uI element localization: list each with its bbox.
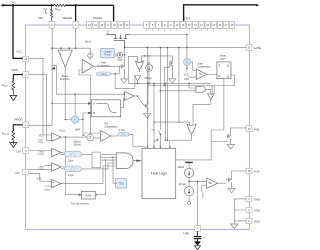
wire out pin stubs (146, 28, 232, 31)
wire VIN left drop to VCC (13, 5, 23, 58)
block input filter (92, 152, 101, 168)
wire TMR cap (197, 231, 199, 236)
wire VIN top rail (3, 4, 55, 6)
circle gate sense (183, 59, 190, 66)
wire inverter input stubs (212, 86, 214, 95)
svg-text:1.235V: 1.235V (203, 191, 205, 198)
comparator OV2 (52, 179, 62, 187)
svg-text:SENSE: SENSE (63, 16, 73, 20)
transistor FLT FET (226, 177, 231, 186)
wires DC to comparator (94, 137, 101, 139)
svg-text:1.465V: 1.465V (38, 151, 45, 153)
wire bus y83.4 (128, 82, 211, 84)
svg-text:R: R (219, 74, 221, 78)
ground MON (10, 96, 17, 101)
svg-text:0/80µA: 0/80µA (145, 77, 153, 80)
wires GND pins to ground (234, 199, 246, 224)
junction VIN rail dots (50, 4, 52, 6)
svg-text:Comparator: Comparator (104, 126, 117, 129)
ground GND pins (231, 224, 238, 229)
pin PROG left (23, 122, 29, 128)
wire bus1 (56, 93, 123, 95)
delay pill ON (65, 151, 82, 157)
pins OUT group (144, 21, 149, 28)
svg-text:MON: MON (12, 68, 19, 72)
wire SENSE internal drop (75, 28, 77, 48)
svg-text:100µA: 100µA (178, 166, 185, 169)
ground PROG (10, 143, 17, 148)
wire op-amp out diagonal (134, 96, 144, 106)
source 50mV offset (89, 48, 91, 53)
comparator PG (101, 131, 111, 142)
svg-text:S: S (219, 64, 221, 68)
svg-text:10µs: 10µs (68, 161, 74, 163)
wire gate bus down (124, 48, 126, 64)
svg-text:CT: CT (203, 236, 206, 239)
svg-text:RPROG: RPROG (2, 133, 9, 136)
wire buses center vertical (146, 48, 148, 147)
svg-text:VCC: VCC (37, 177, 42, 180)
comparator fast (82, 59, 94, 73)
svg-text:VCC: VCC (16, 50, 22, 54)
switch on bus (159, 130, 161, 147)
svg-text:Fault Logic: Fault Logic (151, 172, 167, 176)
op-amp SOA (125, 92, 134, 101)
svg-text:Amplifier: Amplifier (60, 78, 70, 81)
pin VCC left (23, 56, 29, 62)
resistor RSNS (54, 4, 65, 6)
current source 0/80uA (146, 64, 153, 71)
ground gate FET (121, 74, 128, 83)
current arrow ISET (45, 10, 46, 14)
wire comp to FLT FET (218, 182, 227, 184)
pin 4 SENSE (73, 21, 78, 28)
wire amp input stubs (61, 48, 69, 50)
svg-text:RMON: RMON (2, 84, 8, 87)
pin numbers top row (51, 24, 234, 27)
wire SOA curve inputs (52, 104, 88, 114)
svg-text:GND: GND (254, 198, 260, 202)
wire center bus verticals (165, 48, 167, 141)
op-amp servo amplifier (58, 50, 72, 67)
comparator ON (52, 148, 62, 156)
comparator gate (196, 69, 206, 79)
delay pill fast (97, 72, 111, 76)
wire OUT rail (184, 5, 257, 22)
svg-text:2.42V: 2.42V (38, 142, 44, 144)
wire gate line (125, 47, 246, 49)
pin MON left (23, 72, 29, 78)
wire sense node line (52, 47, 90, 49)
wire VCC internal (29, 58, 52, 135)
svg-text:Q: Q (227, 74, 229, 78)
capacitor CT (194, 237, 202, 239)
delay pill OV (65, 166, 82, 172)
wire drain pin stub (107, 30, 109, 35)
svg-text:Turn off all timers: Turn off all timers (71, 203, 89, 206)
svg-text:PROG: PROG (15, 118, 23, 122)
block fault logic (142, 149, 176, 199)
svg-text:FLTb: FLTb (254, 170, 260, 174)
resistor RSET (51, 5, 53, 21)
svg-text:POR: POR (85, 194, 91, 198)
svg-text:1.2µs: 1.2µs (68, 175, 75, 177)
svg-text:50mV: 50mV (85, 41, 92, 44)
svg-text:TSD: TSD (118, 182, 124, 186)
svg-text:GATE: GATE (254, 46, 262, 50)
delay pill PG (118, 133, 129, 136)
pin FLTb right (246, 168, 252, 174)
wire charge pump to source (115, 54, 118, 56)
svg-text:Pump: Pump (104, 54, 111, 57)
svg-text:GND: GND (254, 220, 260, 224)
comparator OV (52, 163, 62, 171)
wire TMR node (189, 177, 198, 225)
svg-text:1.305V: 1.305V (38, 154, 45, 156)
svg-text:DRAIN: DRAIN (93, 16, 102, 20)
svg-text:AMP: AMP (75, 128, 80, 131)
ground bleed FET (169, 79, 176, 83)
latch reset (217, 62, 231, 79)
wire MON external (13, 75, 22, 81)
svg-text:ON: ON (151, 130, 155, 132)
svg-text:TMR: TMR (183, 231, 189, 235)
gate AND small (196, 86, 205, 92)
ground SOA FET (144, 112, 151, 119)
IC outline border (26, 25, 250, 229)
svg-text:0.8V: 0.8V (184, 78, 189, 81)
wire SET line to PROG (29, 65, 52, 126)
wire SOA curve output (121, 99, 125, 108)
comparator UVLO (52, 133, 62, 141)
wire DRAIN drop (113, 5, 115, 22)
svg-text:OUT: OUT (184, 17, 190, 21)
wire SENSE drop (75, 5, 77, 22)
svg-text:A: A (93, 102, 95, 106)
pin 3 SET (49, 21, 54, 28)
current source 10uA (185, 187, 194, 196)
svg-text:200mV: 200mV (74, 142, 82, 144)
resistor RPROG (12, 131, 15, 145)
svg-text:VCC: VCC (39, 134, 44, 137)
source DC offset (87, 134, 94, 141)
transistor bleed FET (164, 56, 172, 79)
svg-text:B: B (93, 111, 95, 115)
block SOA curve (91, 100, 120, 117)
transistor gate pulldown FET (120, 64, 125, 74)
svg-text:DC: DC (82, 135, 86, 137)
block POR (81, 191, 95, 199)
ground PG FET (227, 145, 234, 150)
pin PGb right (246, 126, 252, 132)
wire top rail to drain (65, 4, 113, 6)
pin boxes top row (49, 21, 235, 28)
summer circle AMP (71, 116, 78, 123)
svg-text:SET: SET (38, 16, 44, 20)
block charge pump (100, 49, 114, 58)
resistor RMON (12, 81, 15, 95)
svg-text:50µA: 50µA (117, 58, 123, 61)
svg-text:PGb: PGb (254, 127, 260, 131)
wire amp output (64, 67, 66, 120)
svg-text:Comparator: Comparator (197, 65, 210, 68)
svg-text:OV: OV (16, 171, 20, 175)
wire source out bus (130, 34, 187, 36)
wire SET internal drop (51, 28, 53, 65)
svg-text:Latch: Latch (220, 57, 227, 60)
pin GATE right (246, 45, 252, 51)
current source 50uA (117, 52, 122, 57)
transistor PG FET (227, 134, 231, 143)
wire servo source down (55, 71, 57, 94)
svg-text:1.3ms: 1.3ms (100, 74, 107, 76)
pin ON left (23, 148, 29, 154)
svg-text:ON: ON (17, 149, 21, 153)
supply bar TMR (185, 161, 193, 163)
svg-text:VCC: VCC (184, 73, 189, 76)
pin TMR bottom (195, 225, 200, 231)
gate NOR down (187, 124, 196, 134)
svg-text:5.4ms: 5.4ms (119, 130, 126, 132)
svg-text:GND: GND (254, 209, 260, 213)
transistor main pass FET (106, 35, 130, 48)
svg-text:UVLO: UVLO (59, 131, 65, 133)
transistor SET servo FET (52, 65, 56, 71)
current source 100uA (185, 168, 194, 177)
pins GND right (246, 196, 252, 201)
wire comp OV2 output riser (61, 166, 116, 184)
block TSD (116, 179, 127, 189)
svg-text:Q: Q (227, 64, 229, 68)
wire gate sense drop (186, 35, 188, 59)
wires summer (65, 113, 100, 133)
gate AND main (116, 153, 133, 169)
wire PROG external (13, 125, 22, 131)
pins DRAIN 14-20 (87, 21, 92, 28)
svg-text:10.2µA: 10.2µA (179, 183, 187, 186)
wire fast comp output (79, 66, 120, 75)
ground TMR (197, 239, 199, 242)
gate OR pulldown control (136, 61, 144, 69)
wire PG gate feed (211, 79, 224, 142)
wire MON internal (29, 75, 52, 141)
ground FLT FET (228, 188, 235, 193)
wire fast comp down to DC source (89, 75, 91, 134)
transistor SOA FET (144, 101, 148, 112)
buffer under OR (135, 76, 141, 82)
svg-text:100mV: 100mV (74, 144, 82, 146)
comparator TMR (206, 178, 217, 188)
pin OV left (23, 169, 29, 175)
svg-text:1.235V: 1.235V (44, 190, 51, 192)
